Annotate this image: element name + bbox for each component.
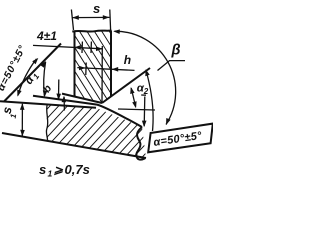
vertical sheet top break edge (wavy): [72, 30, 111, 31]
4±1 tick 2: [90, 42, 92, 54]
alpha2 leader to sheet surface: [143, 97, 146, 127]
lower sheet bottom edge: [2, 133, 146, 158]
alpha2 arrow onto bevel face: [130, 87, 134, 94]
svg-text:⩾: ⩾: [54, 165, 64, 177]
alpha2 dimension line: [131, 88, 135, 107]
beta angle arc: [115, 31, 176, 124]
beta arc bottom arrow: [166, 118, 171, 125]
lower sheet break wavy line: [46, 105, 47, 142]
s1 dimension line: [21, 104, 23, 136]
alpha=50 value frame (parallelogram): [148, 124, 213, 153]
svg-text:4±1: 4±1: [36, 29, 57, 43]
h arrow right-pointing at tick: [79, 66, 86, 71]
vertical sheet bottom-left bevel edge (line A): [62, 94, 102, 103]
b arrow up: [63, 97, 65, 111]
4±1 leader line: [33, 45, 103, 48]
h leader line: [77, 68, 134, 71]
h tick: [85, 63, 87, 76]
leader arc from frame to bevel face: [146, 71, 153, 132]
4±1 tick 1: [81, 42, 83, 54]
lower sheet gap edge (line P): [33, 96, 142, 127]
s dimension extension line right: [109, 10, 112, 31]
4±1 arrow onto sheet left edge: [74, 45, 81, 50]
vertical sheet right bevel face extended: [102, 68, 150, 103]
alpha2 horizontal datum line: [118, 109, 155, 110]
h arrow onto sheet right edge: [112, 67, 119, 72]
alpha angle arc (outer): [18, 59, 37, 96]
vertical sheet right edge: [110, 31, 112, 97]
svg-text:β: β: [171, 43, 181, 59]
b arrow down onto gap line: [58, 80, 60, 100]
svg-text:h: h: [124, 53, 131, 67]
s dimension line: [72, 16, 109, 18]
root vertex vertical extension line: [101, 46, 103, 103]
lower sheet right break edge (zigzag): [136, 127, 145, 160]
svg-text:s: s: [39, 162, 46, 177]
svg-text:0,7s: 0,7s: [65, 162, 90, 177]
svg-text:s: s: [93, 1, 100, 16]
alpha2 underline: [141, 94, 146, 96]
beta leader: [158, 61, 186, 71]
beta arc top arrow: [113, 29, 120, 34]
alpha2 arrow onto datum line: [132, 101, 136, 108]
lower sheet top edge: [0, 101, 96, 108]
alpha1 arc (inner): [44, 62, 46, 96]
svg-text:1: 1: [48, 169, 53, 179]
groove face line (line B): [4, 44, 61, 102]
vertical sheet left edge: [74, 31, 76, 97]
s dimension extension line left: [71, 10, 73, 31]
4±1 arrow onto root vertex line: [96, 47, 103, 52]
